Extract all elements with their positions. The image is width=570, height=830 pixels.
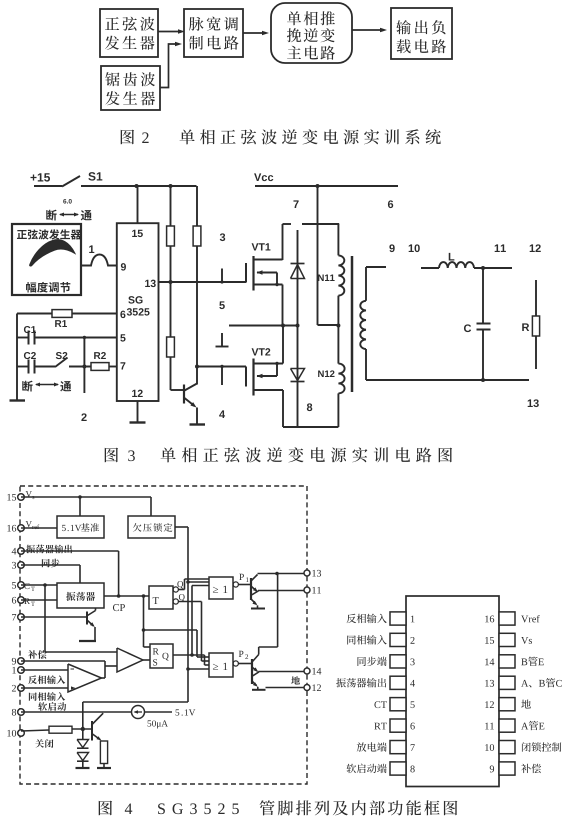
label N11 bbox=[318, 274, 334, 281]
label R1 bbox=[55, 320, 67, 327]
transformer secondary winding bbox=[360, 267, 366, 380]
junction: UVLO / shutdown node bbox=[81, 727, 85, 731]
wire: resistor to Q3 base bbox=[72, 728, 92, 730]
wire: IC pin 13 to VT1 gate bbox=[159, 281, 247, 283]
DIP pin 1 (left) with label 反相输入 bbox=[347, 612, 415, 625]
transistor Q1 emitter bbox=[185, 398, 197, 408]
shutdown transistor Q3 collector bbox=[93, 713, 104, 724]
wire: +15 feed to switch S1 bbox=[34, 185, 62, 187]
MOSFET VT2 gate bar bbox=[245, 367, 247, 387]
ground (left bus) bbox=[10, 399, 26, 401]
junction: VT1/VT2 source bbox=[281, 324, 285, 328]
wire: pin16 to reference bbox=[21, 527, 57, 529]
IC pin label 15 bbox=[132, 230, 143, 237]
capacitor C2 on pin7 line bbox=[17, 360, 55, 374]
pin 10 label 关闭 bbox=[35, 739, 53, 748]
pin 3 terminal (circle) and number bbox=[12, 562, 24, 569]
pin 2 label 同相输入 bbox=[29, 692, 65, 701]
shutdown transistor Q3 base bar bbox=[91, 721, 93, 741]
pin 6 terminal (circle) and number bbox=[12, 597, 24, 604]
junction: RS-Q split bbox=[190, 653, 204, 657]
wire: pin4 oscillator output bbox=[21, 551, 119, 596]
wire: pin8 soft-start line bbox=[21, 711, 132, 713]
diode VD1 (pointing up) bbox=[291, 264, 305, 279]
wire: error amp output / comp node bbox=[102, 661, 118, 678]
probe symbol below node5 rail bbox=[216, 333, 229, 347]
block: sawtooth generator 锯齿波发生器 bbox=[101, 66, 160, 110]
DIP pin 15 (right) with label Vs bbox=[485, 633, 532, 646]
resistor R2 bbox=[91, 363, 109, 371]
pin 8 terminal (circle) and number bbox=[12, 709, 24, 716]
block: oscillator 振荡器 bbox=[57, 583, 104, 608]
wire: IC pin 15 to supply rail bbox=[137, 186, 139, 223]
wire: Q1 emitter to ground bbox=[196, 408, 198, 425]
caption: 图2 单相正弦波逆变电源实训系统 bbox=[121, 129, 441, 144]
pin 5 terminal (circle) and number bbox=[12, 582, 24, 589]
DIP pin 12 (right) with label 地 bbox=[485, 698, 531, 711]
junction: P2 collector riser top bbox=[275, 572, 279, 576]
output pair B base bar bbox=[251, 659, 253, 684]
pin 8 label 软启动 bbox=[38, 702, 66, 711]
switch S1 designator bbox=[88, 172, 102, 180]
capacitor C1 on pin5 line bbox=[17, 331, 117, 345]
shutdown transistor Q3 emitter bbox=[93, 734, 102, 741]
DIP pin 3 (left) with label 同步端 bbox=[357, 655, 414, 668]
label 断-通 (S1 positions) bbox=[46, 210, 91, 221]
pin 15 terminal (circle) and number bbox=[7, 494, 24, 501]
MOSFET VT2 upper (source) lead bbox=[254, 326, 284, 364]
pin 11 terminal (circle) and number bbox=[304, 587, 321, 594]
caption: 图3 单相正弦波逆变电源实训电路图 bbox=[105, 447, 452, 462]
diode string D1 bbox=[77, 729, 89, 748]
wire: R2 to IC pin 7 bbox=[109, 366, 117, 368]
wire: Vs to 5.1V reference bbox=[79, 497, 81, 516]
wire: PWM comparator to S input bbox=[143, 659, 150, 661]
MOSFET VT2 lower (drain) lead bbox=[254, 390, 284, 427]
capacitor C branch bbox=[477, 268, 491, 380]
current source 50uA (circle with arrow) bbox=[132, 706, 145, 719]
DIP pin 6 (left) with label RT bbox=[374, 719, 415, 732]
error amplifier (triangle) bbox=[68, 664, 102, 692]
output transistor B upper: emitter bbox=[253, 667, 259, 672]
junction: CP/RS-R drop bbox=[142, 594, 146, 598]
wire: UVLO output down-rail bbox=[83, 527, 188, 729]
ground (Q2 emitter) bbox=[79, 640, 96, 642]
wire: collectors line to pin 13 bbox=[258, 573, 304, 575]
DIP pin 9 (right) with label 补偿 bbox=[490, 762, 541, 775]
node 7 label bbox=[293, 200, 298, 208]
transistor Q1 collector bbox=[185, 384, 198, 391]
IC pin label 12 bbox=[132, 390, 143, 397]
output transistor B lower: collector bbox=[253, 672, 260, 676]
wire: node2 riser bbox=[83, 338, 85, 394]
terminal label 10 bbox=[409, 244, 420, 252]
junction: L output / C branch bbox=[481, 266, 485, 270]
pin 14 terminal (circle) and number bbox=[304, 668, 321, 675]
block: 5.1V reference 5.1V基准 bbox=[57, 516, 104, 538]
output pair A base bar bbox=[250, 578, 252, 600]
MOSFET VT1 source lead bbox=[254, 285, 283, 327]
resistor (shutdown input) bbox=[49, 726, 72, 733]
SG3525 internal diagram dashed border bbox=[20, 486, 307, 784]
terminal label 13 bbox=[528, 399, 539, 407]
wire: UVLO to OR2 input bbox=[186, 667, 209, 671]
label R bbox=[522, 323, 529, 331]
node 3 label bbox=[220, 233, 225, 241]
IC pin label 5 bbox=[120, 334, 125, 341]
wire: branch to OR2 riser bbox=[144, 630, 210, 657]
label S2 bbox=[56, 352, 68, 359]
IC U1 SG3525 body bbox=[117, 223, 159, 401]
OR gate P1 (>=1) bbox=[209, 577, 233, 599]
pin 2 terminal (circle) and number bbox=[12, 685, 24, 692]
MOSFET VT1 body lead with arrow bbox=[257, 270, 279, 286]
DIP pin 2 (left) with label 同相输入 bbox=[347, 633, 414, 646]
wire: IC pin 12 to ground bbox=[137, 401, 139, 422]
arrow: inverter to load bbox=[352, 28, 387, 33]
wire: current source to 5.1V bbox=[145, 711, 173, 713]
output transistor A lower: collector bbox=[252, 591, 259, 595]
ground (Q3 emitter resistor) bbox=[97, 767, 111, 769]
wire: pin2 noninverting input bbox=[21, 687, 68, 689]
node 4 label bbox=[219, 410, 225, 418]
inductor L with leads bbox=[421, 262, 512, 268]
wire: pin9 compensation bbox=[21, 660, 105, 662]
T-FF Qbar output bubble bbox=[173, 594, 185, 604]
IC pin label 9 bbox=[121, 263, 126, 270]
MOSFET VT1 drain lead bbox=[254, 224, 283, 260]
resistor R branch (load) bbox=[532, 280, 539, 369]
terminal label 9 bbox=[389, 244, 394, 252]
junction: CT ramp takeoff bbox=[43, 583, 47, 587]
resistor (Q3 emitter to ground) bbox=[100, 741, 107, 768]
resistor Rb (upper, column B) bbox=[193, 226, 201, 246]
output transistor B upper: collector bbox=[253, 647, 278, 662]
wire: pin7 discharge bbox=[21, 616, 87, 618]
pin 13 terminal (circle) and number bbox=[304, 570, 321, 577]
block: RS flip-flop / PWM latch bbox=[150, 644, 173, 668]
pin 9 terminal (circle) and number bbox=[12, 658, 24, 665]
label VT2 bbox=[252, 348, 271, 355]
pin 6 label RT bbox=[24, 598, 35, 606]
DIP pin 10 (right) with label 闭锁控制 bbox=[485, 741, 561, 754]
diode string D2 bbox=[77, 753, 89, 768]
pin 3 label 同步 bbox=[42, 559, 60, 568]
wire: R1 line to IC pin 6 bbox=[17, 313, 117, 315]
block: sine wave generator module 正弦波发生器 (fig3) bbox=[12, 224, 81, 295]
transformer core bbox=[351, 256, 354, 392]
wire: oscillator output CP line bbox=[104, 595, 149, 597]
transistor Q1 base lead bbox=[171, 389, 185, 391]
wire: CP to RS flip-flop R input bbox=[144, 596, 151, 647]
node 3 probe stub bbox=[220, 269, 223, 284]
pin 16 terminal (circle) and number bbox=[7, 525, 24, 532]
node 4 probe stub bbox=[221, 367, 223, 386]
DIP pin 8 (left) with label 软启动端 bbox=[347, 762, 415, 775]
transformer primary winding N12 bbox=[338, 364, 344, 427]
junction: Vs/reference bbox=[78, 495, 82, 499]
output transistor B lower: emitter bbox=[253, 682, 258, 690]
pin 7 terminal (circle) and number bbox=[12, 614, 24, 621]
wire: left ground bus bbox=[16, 314, 18, 401]
wire: sawtooth generator to PWM (L-shape) bbox=[160, 42, 182, 88]
OR gate P2 (>=1) bbox=[209, 653, 233, 677]
wire: T-Qbar to OR2 input2 bbox=[178, 602, 209, 662]
label P2 bbox=[239, 651, 248, 659]
wire: pin 11 line (A emitter) bbox=[258, 590, 304, 592]
node 6 label bbox=[388, 200, 393, 208]
pin 1 label 反相输入 bbox=[28, 675, 65, 684]
junction: R-drop branch bbox=[142, 628, 146, 632]
wire: pin3 sync bbox=[21, 565, 80, 583]
label C1 bbox=[24, 326, 36, 333]
wire: resistor column A (x=170.5) bbox=[170, 186, 172, 390]
block: push-pull inverter main circuit 单相推挽逆变主电路 (rounded) bbox=[271, 3, 352, 63]
T-FF Q output bubble bbox=[173, 581, 183, 592]
OR2 output bubble bbox=[233, 661, 238, 666]
wire: S1 to pin15/resistor rail bbox=[81, 185, 197, 187]
PWM comparator (triangle) bbox=[117, 648, 143, 672]
pin 10 terminal (circle) and number bbox=[7, 730, 24, 737]
arrow: sine generator to PWM bbox=[158, 29, 185, 34]
pin 15 net label Vs bbox=[26, 491, 35, 499]
output transistor A lower: emitter bbox=[252, 600, 258, 609]
block: sine wave generator 正弦波发生器 bbox=[100, 9, 158, 57]
label 5.1V bbox=[176, 709, 196, 715]
wire: Vcc rail bbox=[255, 185, 398, 187]
pin 9 label 补偿 bbox=[28, 650, 47, 659]
IC pin label 6 bbox=[120, 311, 125, 318]
junction: Vcc rail bbox=[316, 184, 320, 188]
ground (B lower emitter) bbox=[252, 689, 266, 691]
wire: T-Q to OR1 input1 bbox=[178, 579, 209, 590]
transistor Q1 base bar bbox=[183, 385, 185, 404]
pin 4 terminal (circle) and number bbox=[12, 548, 25, 555]
wire: pin5 CT bbox=[21, 584, 57, 586]
ground (IC pin 12) bbox=[130, 421, 146, 423]
resistor R1 bbox=[52, 310, 72, 318]
label 50µA bbox=[148, 720, 168, 728]
label C bbox=[464, 324, 471, 332]
block: PWM circuit 脉宽调制电路 bbox=[184, 9, 243, 57]
wire: pin 12 ground line bbox=[266, 687, 304, 689]
wire: column B to VT2 gate (node 4 line) bbox=[197, 366, 246, 368]
label P1 bbox=[239, 574, 248, 582]
wire: resistor column B (x=197) bbox=[196, 186, 198, 385]
block: T flip-flop bbox=[149, 586, 173, 609]
wire: UVLO to OR1 input bbox=[186, 580, 209, 584]
junction: riser/pin5 line bbox=[83, 336, 86, 339]
wire: B collector riser to pin13 line bbox=[277, 574, 279, 648]
junction: pin15 drop bbox=[135, 184, 139, 188]
label R2 bbox=[94, 352, 106, 359]
label 断-通 (S2 positions) bbox=[22, 381, 71, 392]
wire: freewheel diode column bbox=[297, 230, 299, 427]
MOSFET VT2 channel bar bbox=[252, 359, 254, 396]
OR1 output bubble bbox=[233, 582, 238, 587]
IC pin label 7 bbox=[120, 362, 125, 369]
wire: OR1 to driver base bar bbox=[238, 584, 251, 586]
diode VD2 (pointing down) bbox=[291, 369, 305, 382]
label L bbox=[449, 253, 455, 261]
switch S2 blade bbox=[55, 358, 91, 368]
junction: transformer center tap bbox=[336, 324, 340, 328]
pin 12 terminal (circle) and number bbox=[304, 684, 321, 691]
wire: generator output to IC pin 9 (with bump) bbox=[81, 255, 117, 266]
wire: upper drain line (to N11 top) bbox=[283, 223, 340, 225]
DIP pin 14 (right) with label B管E bbox=[485, 655, 544, 668]
output transistor A upper: emitter bbox=[252, 587, 259, 593]
ground (Q1 emitter) bbox=[190, 423, 206, 425]
resistor Ra (upper, column A) bbox=[167, 226, 175, 246]
DIP package body bbox=[406, 596, 499, 787]
sine symbol (brush swoosh) inside generator box bbox=[30, 240, 75, 266]
block: undervoltage lockout 欠压锁定 bbox=[128, 516, 175, 538]
transformer primary winding N11 bbox=[338, 224, 344, 364]
node 5 label bbox=[219, 301, 224, 309]
discharge transistor Q2 bbox=[87, 608, 96, 640]
junction: riser/pin7 line bbox=[82, 365, 86, 369]
label N12 bbox=[318, 370, 334, 377]
terminal label 11 bbox=[495, 244, 506, 252]
junction: node4 stub bbox=[220, 365, 223, 368]
arrow: PWM to inverter main circuit bbox=[243, 31, 269, 36]
label 地 (ground net) bbox=[291, 676, 300, 684]
MOSFET VT1 channel bar bbox=[252, 256, 254, 291]
MOSFET VT1 gate bar bbox=[245, 263, 247, 283]
wire: secondary bottom line bbox=[366, 379, 529, 381]
IC name SG3525 bbox=[127, 296, 150, 315]
junction: column B / VT2 gate line bbox=[195, 365, 199, 369]
wire: OR2 to driver base bar bbox=[238, 663, 252, 665]
wire: pin 14 line (B emitter) bbox=[258, 671, 304, 673]
wire: Vcc center tap drop bbox=[318, 186, 339, 325]
label VT1 bbox=[252, 243, 271, 250]
MOSFET VT2 body lead with arrow bbox=[257, 362, 279, 378]
junction: pin4/CP bbox=[117, 594, 121, 598]
DIP pin 13 (right) with label A、B管C bbox=[485, 676, 562, 689]
pin 16 net label Vref bbox=[26, 521, 40, 529]
junction: resistor column A bbox=[169, 184, 173, 188]
output transistor A upper: collector bbox=[252, 575, 258, 581]
junction: pin13/column A bbox=[169, 280, 173, 284]
IC pin label 13 bbox=[145, 280, 156, 287]
ground (A lower emitter) bbox=[251, 608, 265, 610]
label 6.0 (switch positions) bbox=[63, 199, 72, 204]
block: output load circuit 输出负载电路 bbox=[391, 8, 452, 59]
pin 4 label 振荡器输出 bbox=[26, 545, 72, 554]
wire: secondary top lead (terminal 9) bbox=[366, 266, 386, 268]
pin 1 terminal (circle) and number bbox=[12, 667, 24, 674]
ground (diode string) bbox=[76, 767, 90, 769]
junction: source rail / diode column bbox=[296, 324, 300, 328]
wire: pin10 shutdown line bbox=[21, 730, 49, 731]
terminal label 12 bbox=[530, 244, 541, 252]
DIP pin 11 (right) with label A管E bbox=[485, 719, 544, 732]
resistor Rc (lower, column A) bbox=[167, 337, 175, 357]
node 2 label bbox=[81, 413, 86, 421]
DIP pin 4 (left) with label 振荡器输出 bbox=[336, 676, 415, 689]
wire: RS-Q output to OR risers bbox=[173, 586, 209, 666]
DIP pin 16 (right) with label Vref bbox=[485, 612, 539, 625]
wire: CT ramp to PWM comparator bbox=[45, 585, 117, 652]
DIP pin 5 (left) with label CT bbox=[374, 698, 414, 711]
node 1 label bbox=[89, 245, 94, 253]
caption: 图4 SG3525 管脚排列及内部功能框图 bbox=[99, 800, 458, 815]
label C2 bbox=[24, 352, 36, 359]
node 8 label bbox=[307, 403, 312, 411]
DIP pin 7 (left) with label 放电端 bbox=[357, 741, 415, 754]
wire: pin1 inverting input bbox=[21, 669, 68, 671]
label CP bbox=[113, 604, 125, 611]
wire: common source rail (node 5) bbox=[229, 325, 298, 327]
wire: pin6 RT bbox=[21, 599, 57, 601]
net label +15 bbox=[31, 173, 51, 181]
switch S1 blade bbox=[62, 176, 80, 187]
net label Vcc bbox=[254, 173, 273, 181]
wire: bottom line to N12 bbox=[283, 426, 338, 428]
pin 5 label CT bbox=[24, 583, 34, 591]
junction: C bottom bbox=[481, 378, 485, 382]
wire: Vs rail (pin15) bbox=[21, 497, 151, 516]
